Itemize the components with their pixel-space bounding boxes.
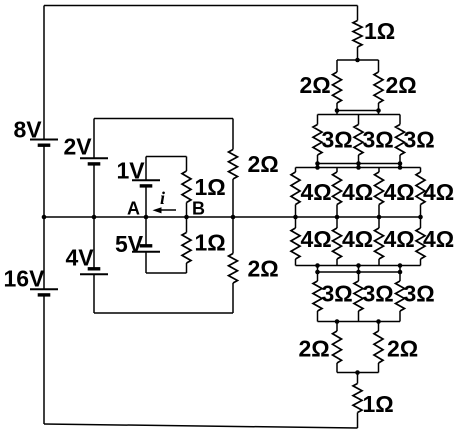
resistor 3ohm lower-3: [396, 281, 405, 311]
resistor 3ohm lower-2: [354, 281, 363, 311]
value label 3ohm lower-2: [363, 281, 394, 307]
wire 3ohm-3 lead top: [399, 115, 401, 125]
wire top: [44, 5, 358, 7]
wire 2ohm right lead top: [378, 60, 380, 72]
svg-text:4Ω: 4Ω: [301, 226, 332, 252]
node 3ohm bottom 3: [398, 161, 403, 166]
value label 4ohm upper-2: [342, 179, 373, 205]
value label 4ohm lower-2: [342, 226, 373, 252]
wire 2V-4V branch middle: [93, 164, 95, 269]
svg-text:3Ω: 3Ω: [322, 127, 353, 153]
svg-text:2Ω: 2Ω: [248, 151, 279, 177]
current arrow i: [153, 207, 177, 213]
resistor 2ohm lower-left: [333, 331, 342, 363]
wire 4ohm upper-2 lead top: [336, 168, 338, 173]
svg-text:4Ω: 4Ω: [384, 226, 415, 252]
value label 3ohm lower-1: [322, 281, 353, 307]
wire 3ohm-1 lead bottom: [317, 155, 319, 168]
wire rail 2ohm top: [337, 59, 379, 61]
svg-text:1Ω: 1Ω: [364, 18, 395, 44]
resistor 1ohm inner lower: [182, 233, 191, 264]
wire 3ohm-3 lead bottom: [399, 155, 401, 168]
node 4ohm top rail 2: [356, 165, 361, 170]
node 3ohm bottom 1: [315, 161, 320, 166]
svg-text:4Ω: 4Ω: [384, 179, 415, 205]
node left wire center: [42, 215, 47, 220]
wire rail 3ohm top: [318, 114, 401, 116]
wire 4ohm upper-1 lead top: [295, 168, 297, 173]
svg-text:i: i: [160, 188, 165, 208]
wire box top: [94, 118, 233, 120]
value label 2ohm box lower: [248, 256, 279, 282]
wire rail 2ohm lower bottom: [337, 372, 379, 374]
value label 1ohm inner lower: [195, 230, 226, 256]
value label 2ohm lower-right: [387, 336, 418, 362]
battery 8V: [30, 140, 58, 146]
value label 2ohm box upper: [248, 151, 279, 177]
value label 4ohm upper-3: [384, 179, 415, 205]
node center col 1: [293, 215, 298, 220]
wire 3ohm-1 lead top: [317, 115, 319, 125]
value label 3ohm upper-3: [404, 127, 435, 153]
wire 2ohm branch bottom lead: [232, 283, 234, 313]
svg-text:1V: 1V: [117, 158, 146, 184]
resistor 2ohm lower-right: [374, 331, 383, 363]
resistor 2ohm box upper: [229, 150, 238, 180]
value label 2V: [64, 134, 93, 160]
wire 4ohm lower-4 lead bottom: [420, 259, 422, 266]
node 2ohm lower top left: [335, 319, 340, 324]
wire 1ohm bottom lead lower: [357, 413, 359, 429]
value label 3ohm lower-3: [404, 281, 435, 307]
value label 2ohm upper-left: [300, 72, 331, 98]
wire 4ohm upper-2 lead bottom: [336, 205, 338, 218]
wire 4ohm upper-4 lead top: [420, 168, 422, 173]
node label B: [192, 199, 205, 219]
wire rail 2ohm bottom: [337, 110, 379, 112]
node center col 2: [335, 215, 340, 220]
wire 2ohm lower-right lead bottom: [378, 363, 380, 373]
node 4ohm top rail 1: [315, 165, 320, 170]
node 2V branch center: [92, 215, 97, 220]
node 1ohm-2ohm junction: [355, 58, 360, 63]
node 4ohm bottom 2: [356, 263, 361, 268]
wire 5V branch lower: [145, 252, 147, 273]
battery 1V: [132, 180, 160, 186]
resistor 2ohm ladder upper-left: [333, 72, 342, 103]
svg-text:3Ω: 3Ω: [363, 281, 394, 307]
value label 16V: [4, 266, 46, 292]
svg-text:2Ω: 2Ω: [299, 336, 330, 362]
wire 4ohm lower-1 lead top: [295, 217, 297, 228]
wire 2ohm left lead top: [336, 60, 338, 72]
resistor 2ohm box lower: [229, 254, 238, 284]
svg-text:4Ω: 4Ω: [423, 179, 454, 205]
wire 4ohm lower-1 lead bottom: [295, 259, 297, 266]
svg-text:1Ω: 1Ω: [363, 391, 394, 417]
wire 3ohm-2 lead top: [358, 115, 360, 125]
value label 3ohm upper-1: [322, 127, 353, 153]
resistor 3ohm lower-1: [313, 281, 322, 311]
battery 16V: [30, 289, 58, 295]
wire 2ohm lower-right lead top: [378, 322, 380, 332]
svg-text:4Ω: 4Ω: [423, 226, 454, 252]
wire 4ohm lower-2 lead top: [336, 217, 338, 228]
wire 3ohm lower-2 lead bottom: [358, 311, 360, 322]
resistor 4ohm lower-3: [375, 228, 384, 259]
resistor 4ohm upper-1: [291, 172, 300, 205]
wire 2ohm lower-left lead top: [336, 322, 338, 332]
node 3ohm lower top 3: [398, 270, 403, 275]
wire 2ohm branch middle: [232, 179, 234, 254]
value label 1V: [117, 158, 146, 184]
resistor 1ohm ladder bottom: [353, 384, 362, 413]
svg-text:2Ω: 2Ω: [387, 336, 418, 362]
svg-text:1Ω: 1Ω: [195, 230, 226, 256]
current label i: [160, 188, 165, 208]
wire 1V branch lower: [145, 186, 147, 217]
wire 4ohm upper-3 lead top: [378, 168, 380, 173]
wire 1ohm inner top lead: [186, 157, 188, 172]
battery 5V: [132, 246, 160, 252]
wire inner box top: [146, 156, 187, 158]
resistor 1ohm inner upper: [182, 171, 191, 203]
svg-text:5V: 5V: [115, 231, 144, 257]
node 3ohm bottom 2: [356, 161, 361, 166]
wire 4ohm upper-3 lead bottom: [378, 205, 380, 218]
svg-text:3Ω: 3Ω: [322, 281, 353, 307]
wire 4ohm lower-4 lead top: [420, 217, 422, 228]
wire 4ohm upper-1 lead bottom: [295, 205, 297, 218]
node 2ohm-1ohm bottom junction: [355, 370, 360, 375]
wire 2ohm right lead bottom: [378, 103, 380, 115]
wire rail 4ohm top: [296, 167, 421, 169]
wire 2ohm lower-left lead bottom: [336, 363, 338, 373]
wire left middle: [43, 145, 45, 289]
node 4ohm bottom 1: [315, 263, 320, 268]
resistor 3ohm upper-1: [313, 125, 322, 156]
wire 1ohm bottom lead upper: [357, 373, 359, 384]
svg-text:2V: 2V: [64, 134, 93, 160]
wire rail 4ohm bottom: [296, 265, 421, 267]
value label 4ohm lower-1: [301, 226, 332, 252]
svg-text:2Ω: 2Ω: [386, 72, 417, 98]
svg-text:2Ω: 2Ω: [300, 72, 331, 98]
resistor 3ohm upper-2: [354, 125, 363, 156]
value label 2ohm lower-left: [299, 336, 330, 362]
wire inner box bottom: [146, 272, 187, 274]
wire 4ohm upper-4 lead bottom: [420, 205, 422, 218]
value label 4ohm lower-3: [384, 226, 415, 252]
svg-text:4Ω: 4Ω: [342, 226, 373, 252]
svg-text:4Ω: 4Ω: [342, 179, 373, 205]
wire 1ohm inner mid: [186, 203, 188, 233]
value label 8V: [14, 117, 43, 143]
wire bottom: [44, 424, 358, 428]
svg-text:16V: 16V: [4, 266, 46, 292]
resistor 4ohm lower-2: [333, 228, 342, 259]
svg-text:3Ω: 3Ω: [363, 127, 394, 153]
svg-text:1Ω: 1Ω: [195, 174, 226, 200]
value label 4ohm lower-4: [423, 226, 454, 252]
battery 4V: [80, 269, 108, 275]
node 3ohm lower top 2: [356, 270, 361, 275]
svg-text:3Ω: 3Ω: [404, 281, 435, 307]
resistor 4ohm lower-4: [416, 228, 425, 259]
svg-text:A: A: [127, 199, 140, 219]
node 2ohm bottom right: [376, 108, 381, 113]
resistor 3ohm upper-3: [396, 125, 405, 156]
value label 4ohm upper-1: [301, 179, 332, 205]
value label 1ohm ladder bottom: [363, 391, 394, 417]
wire rail 3ohm lower top: [318, 271, 401, 273]
wire stub 4ohm-3ohm lower 2: [358, 266, 360, 282]
node label A: [127, 199, 140, 219]
resistor 2ohm ladder upper-right: [374, 72, 383, 103]
wire left lower: [43, 295, 45, 424]
svg-text:4Ω: 4Ω: [301, 179, 332, 205]
svg-text:B: B: [192, 199, 205, 219]
wire 5V branch upper: [145, 217, 147, 246]
wire stub 4ohm-3ohm lower 3: [399, 266, 401, 282]
resistor 4ohm upper-3: [375, 172, 384, 205]
node 4ohm top rail 3: [398, 165, 403, 170]
wire stub 4ohm-3ohm lower 1: [317, 266, 319, 282]
value label 3ohm upper-2: [363, 127, 394, 153]
node 2ohm branch center: [231, 215, 236, 220]
resistor 4ohm upper-4: [416, 172, 425, 205]
node A: [144, 215, 149, 220]
wire 3ohm lower-1 lead bottom: [317, 311, 319, 322]
wire 4ohm lower-2 lead bottom: [336, 259, 338, 266]
wire 3ohm-2 lead bottom: [358, 155, 360, 168]
wire left upper: [43, 6, 45, 140]
battery 2V: [80, 158, 108, 164]
svg-text:2Ω: 2Ω: [248, 256, 279, 282]
value label 4ohm upper-4: [423, 179, 454, 205]
wire 3ohm lower-3 lead bottom: [399, 311, 401, 322]
wire 1ohm inner bottom lead: [186, 263, 188, 273]
resistor 4ohm upper-2: [333, 172, 342, 205]
wire center horizontal: [44, 216, 421, 218]
wire 4ohm lower-3 lead bottom: [378, 259, 380, 266]
value label 5V: [115, 231, 144, 257]
resistor 4ohm lower-1: [291, 228, 300, 259]
node 4ohm bottom 3: [398, 263, 403, 268]
wire 1ohm top lead upper: [357, 6, 359, 21]
wire 1ohm top lead lower: [357, 47, 359, 60]
wire 1V branch upper: [145, 157, 147, 181]
value label 4V: [66, 245, 95, 271]
node B: [184, 215, 189, 220]
node center col 4: [418, 215, 423, 220]
value label 1ohm inner upper: [195, 174, 226, 200]
wire 2V branch upper: [93, 119, 95, 159]
svg-text:4V: 4V: [66, 245, 95, 271]
svg-text:3Ω: 3Ω: [404, 127, 435, 153]
node center col 3: [377, 215, 382, 220]
node 3ohm lower top 1: [315, 270, 320, 275]
value label 2ohm upper-right: [386, 72, 417, 98]
resistor 1ohm ladder top: [353, 21, 362, 48]
node 2ohm bottom left: [335, 108, 340, 113]
wire 2ohm left lead bottom: [336, 103, 338, 115]
value label 1ohm ladder top: [364, 18, 395, 44]
wire rail 3ohm bottom: [318, 163, 401, 165]
wire 4ohm lower-3 lead top: [378, 217, 380, 228]
wire box bottom: [94, 312, 233, 314]
wire 2ohm branch top lead: [232, 119, 234, 150]
node 2ohm lower top right: [376, 319, 381, 324]
svg-text:8V: 8V: [14, 117, 43, 143]
wire 4V branch lower: [93, 274, 95, 313]
wire rail 3ohm lower bottom: [318, 321, 401, 323]
